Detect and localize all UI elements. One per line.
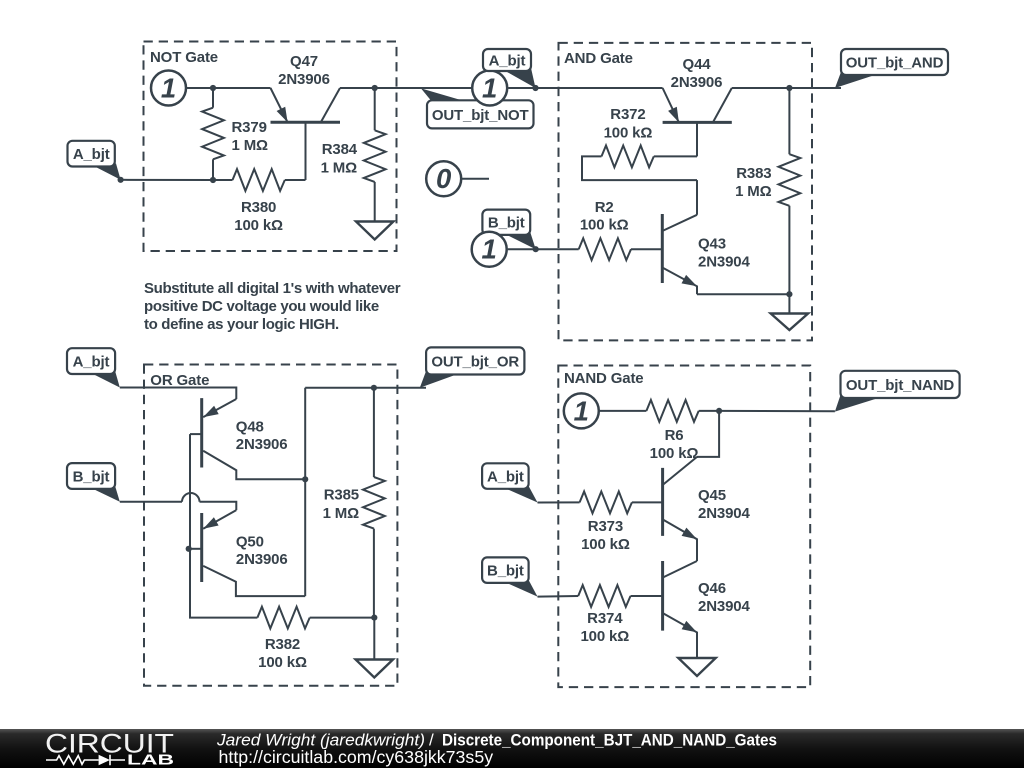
wire OR collector bus [304,388,306,596]
wire A_bjt to R380 [121,179,233,181]
node: A junction [532,85,538,91]
svg-text:R372: R372 [610,106,645,123]
wire A_bjt to R373 [538,501,580,503]
node: AND ground junction [786,291,792,297]
svg-text:R382: R382 [265,636,300,653]
svg-text:1: 1 [574,395,589,426]
digital source 1 (A net) [472,71,507,106]
svg-text:1 MΩ: 1 MΩ [321,160,358,177]
svg-text:OUT_bjt_NOT: OUT_bjt_NOT [432,107,529,124]
digital source 1 (NAND pull-up) [564,393,599,428]
svg-text:R383: R383 [736,165,771,182]
CircuitLab logo resistor+diode glyph [46,756,99,765]
flag B_bjt (NAND input) [482,557,537,596]
resistor R374 100 kOhm [578,585,662,645]
node: NOT input top junction [210,85,216,91]
node: NOT output junction [372,85,378,91]
svg-text:100 kΩ: 100 kΩ [581,536,630,553]
svg-text:http://circuitlab.com/cy638jkk: http://circuitlab.com/cy638jkk73s5y [219,747,494,767]
flag OUT_bjt_NAND [835,371,960,412]
resistor R380 100 kOhm [233,169,306,234]
svg-text:OUT_bjt_AND: OUT_bjt_AND [846,54,944,71]
svg-text:100 kΩ: 100 kΩ [604,125,653,142]
NOT gate enclosure box [144,42,397,252]
transistor Q48 2N3906 (PNP) [190,398,305,479]
node: OR ground junction [371,615,377,621]
wire A_bjt to Q48 emitter [120,388,237,400]
svg-text:R380: R380 [241,199,276,216]
svg-text:Q47: Q47 [290,53,318,70]
node: Q48/Q50 base junction [186,546,192,552]
svg-text:2N3906: 2N3906 [671,74,723,91]
svg-text:OR Gate: OR Gate [150,372,209,389]
resistor R2 100 kOhm [579,199,663,260]
svg-text:2N3906: 2N3906 [236,436,288,453]
svg-text:A_bjt: A_bjt [487,468,524,485]
svg-text:Q45: Q45 [698,487,726,504]
wire node to Q47 emitter [213,87,271,89]
digital source 1 (NOT input) [151,71,186,106]
transistor Q44 2N3906 (PNP) [663,56,732,156]
svg-text:2N3904: 2N3904 [698,254,750,271]
flag A_bjt (NAND input) [482,463,537,502]
svg-text:Q43: Q43 [698,236,726,253]
svg-text:Q46: Q46 [698,580,726,597]
wire B junction to R2 [536,248,579,250]
resistor R384 1 MOhm [321,88,386,222]
wire AND output to flag [789,87,841,89]
svg-text:100 kΩ: 100 kΩ [234,217,283,234]
wire R372 loop to Q43 collector [696,180,698,215]
NAND gate enclosure box [558,366,810,688]
resistor R372 100 kOhm [582,106,697,180]
transistor Q46 2N3904 (NPN) [663,561,751,658]
resistor R382 100 kOhm [257,607,374,671]
ground (OR gate) [356,618,393,678]
svg-text:R385: R385 [324,487,359,504]
transistor Q50 2N3906 (PNP) [189,510,306,596]
resistor R373 100 kOhm [580,492,663,554]
wire Q44 collector to AND output node [732,87,790,89]
wire NAND output to flag [719,410,835,412]
node: B junction [533,246,539,252]
svg-text:A_bjt: A_bjt [489,52,526,69]
transistor Q47 2N3906 (PNP) [271,53,341,180]
svg-text:R374: R374 [587,610,623,627]
flag OUT_bjt_NOT [421,88,534,128]
wire output node to Q45 collector [697,411,719,457]
svg-text:B_bjt: B_bjt [487,563,524,580]
svg-text:0: 0 [436,163,452,194]
svg-text:100 kΩ: 100 kΩ [580,628,629,645]
node: NOT input bottom junction [210,177,216,183]
node: OR output junction [371,385,377,391]
digital source 0 [426,161,461,196]
svg-text:B_bjt: B_bjt [488,215,525,232]
wire Q48 base down to Q50 base node [189,434,191,549]
transistor Q45 2N3904 (NPN) [663,457,751,561]
terminal dot of A_bjt flag [118,177,124,183]
OR gate enclosure box [144,365,397,686]
svg-text:LAB: LAB [127,751,174,768]
svg-text:1: 1 [482,234,497,265]
svg-text:R2: R2 [595,199,614,216]
svg-text:R6: R6 [665,427,684,444]
wire source to B junction [508,248,536,250]
svg-text:1: 1 [161,73,176,104]
svg-text:2N3906: 2N3906 [278,71,330,88]
ground (AND gate) [771,294,808,330]
flag OUT_bjt_AND [835,49,948,88]
wire OR top rail [305,387,426,389]
AND gate enclosure box [559,43,813,341]
svg-text:Q44: Q44 [683,56,712,73]
svg-text:to define as your logic HIGH.: to define as your logic HIGH. [144,316,339,333]
svg-text:1: 1 [482,73,497,104]
svg-text:NOT Gate: NOT Gate [150,49,218,66]
wire B_bjt to R374 [538,595,579,598]
wire NOT output to source 1 [375,87,472,89]
svg-text:R373: R373 [588,518,623,535]
wire stub from source 0 [462,178,489,180]
resistor R6 100 kOhm [646,400,719,462]
svg-text:2N3904: 2N3904 [698,505,750,522]
svg-text:positive DC voltage you would: positive DC voltage you would like [144,298,379,315]
svg-text:R379: R379 [232,119,267,136]
wire Q47 collector to output node [340,87,375,89]
svg-text:100 kΩ: 100 kΩ [258,654,307,671]
flag A_bjt (top middle) [483,49,536,88]
wire source1 to node [187,87,214,89]
flag OUT_bjt_OR [420,347,525,387]
svg-text:NAND Gate: NAND Gate [564,370,644,387]
resistor R379 1 MOhm [202,88,268,180]
flag A_bjt (OR input) [67,348,120,387]
wire source to R6 [600,410,647,412]
node: AND output junction [786,85,792,91]
ground (NOT gate) [356,222,393,240]
flag B_bjt (OR input) [67,463,120,502]
svg-text:Q48: Q48 [236,418,264,435]
wire base node to R382 [190,549,257,618]
ground (NAND gate) [678,658,715,676]
svg-text:R384: R384 [322,141,358,158]
node: NAND output junction [716,408,722,414]
resistor R385 1 MOhm [323,388,385,618]
transistor Q43 2N3904 (NPN) [662,214,750,294]
svg-text:1 MΩ: 1 MΩ [232,137,269,154]
svg-text:AND Gate: AND Gate [564,50,633,67]
digital source 1 (B net) [472,232,507,267]
svg-text:OUT_bjt_NAND: OUT_bjt_NAND [846,377,955,394]
svg-text:2N3906: 2N3906 [236,551,288,568]
svg-text:A_bjt: A_bjt [73,354,110,371]
svg-text:100 kΩ: 100 kΩ [580,217,629,234]
svg-text:100 kΩ: 100 kΩ [650,445,699,462]
wire source to A junction [508,87,535,89]
flag A_bjt (NOT input) [68,141,121,180]
svg-text:1 MΩ: 1 MΩ [735,183,772,200]
svg-text:OUT_bjt_OR: OUT_bjt_OR [431,353,519,370]
resistor R383 1 MOhm [735,88,800,294]
svg-text:1 MΩ: 1 MΩ [323,505,360,522]
node: Q48 collector junction [302,476,308,482]
wire B_bjt with hop over Q48 base line [120,501,182,503]
svg-text:B_bjt: B_bjt [73,468,110,485]
svg-text:2N3904: 2N3904 [698,598,750,615]
wire A junction to Q44 emitter [536,87,663,89]
svg-text:Substitute all digital 1's wit: Substitute all digital 1's with whatever [144,280,401,297]
wire Q43 emitter to ground node [697,293,789,295]
svg-text:A_bjt: A_bjt [73,146,110,163]
svg-text:Q50: Q50 [236,534,264,551]
flag B_bjt (AND input) [482,210,535,250]
